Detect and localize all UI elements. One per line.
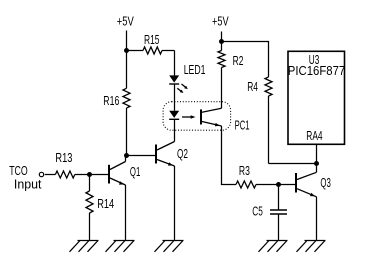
ground below R14 — [70, 241, 99, 252]
svg-text:Q1: Q1 — [130, 165, 140, 179]
resistor R16 — [103, 51, 130, 156]
wire node F to Q3 base — [279, 184, 296, 186]
terminal input open circle — [39, 172, 43, 176]
svg-text:PC1: PC1 — [235, 118, 250, 132]
node B junction R16/Q1 collector/Q2 base — [124, 153, 129, 158]
wire Q3 collector to node E — [316, 164, 318, 173]
resistor R3 — [236, 164, 279, 188]
wire LED1 cathode to PC1 LED anode — [174, 84, 176, 111]
wire R4 to node E — [269, 163, 317, 165]
transistor Q1 — [109, 162, 140, 186]
svg-text:+5V: +5V — [117, 15, 134, 29]
wire Q1 emitter to ground — [125, 185, 127, 241]
wire +5V rail to R4 — [222, 42, 269, 78]
node E junction RA4/R4/Q3 collector — [314, 161, 319, 166]
svg-text:TCO: TCO — [9, 164, 28, 178]
ground below Q2 — [155, 241, 184, 252]
resistor R14 — [86, 175, 114, 241]
svg-text:LED1: LED1 — [184, 63, 206, 77]
svg-text:+5V: +5V — [212, 15, 229, 29]
wire Q3 emitter to ground — [316, 197, 318, 241]
diode PC1 internal LED — [169, 111, 179, 120]
resistor R4 — [247, 77, 272, 164]
node A junction +5V/R15/R16 — [124, 48, 129, 53]
wire Q1 collector to node B — [125, 156, 127, 162]
optocoupler PC1 dashed outline — [163, 102, 231, 131]
node +5V right label — [212, 15, 229, 29]
svg-text:PIC16F877: PIC16F877 — [288, 64, 345, 78]
wire RA4 pin down — [316, 145, 318, 164]
ground below Q1 — [106, 241, 135, 252]
resistor R13 — [45, 151, 90, 178]
wire PC1 emitter down to R3 — [222, 126, 237, 185]
node C junction R13/R14/Q1 base — [87, 172, 92, 177]
svg-text:R15: R15 — [144, 33, 160, 47]
node TCO Input label — [9, 164, 42, 192]
LED LED1 — [169, 63, 205, 93]
transistor Q3 — [296, 172, 331, 197]
resistor R2 — [218, 42, 243, 109]
svg-text:R3: R3 — [239, 164, 250, 178]
ground below Q3 — [297, 241, 326, 252]
svg-text:R13: R13 — [55, 151, 72, 165]
svg-text:C5: C5 — [252, 204, 262, 218]
wire R15 corner down to LED1 — [174, 51, 176, 76]
svg-text:Input: Input — [14, 178, 42, 192]
capacitor C5 — [252, 185, 287, 241]
wire node C to Q1 base — [90, 174, 109, 176]
svg-text:Q2: Q2 — [177, 147, 188, 161]
svg-text:R14: R14 — [97, 197, 114, 211]
ground below C5 — [259, 241, 288, 252]
transistor Q2 — [156, 142, 188, 167]
node F junction R3/C5/Q3 base — [276, 182, 281, 187]
wire node B to Q2 base — [127, 155, 156, 157]
wire PC1 LED cathode to Q2 collector — [174, 119, 176, 141]
IC U3 box — [288, 51, 345, 144]
node D junction +5V/R2/R4 — [219, 39, 224, 44]
svg-text:R2: R2 — [233, 54, 244, 68]
wire Q2 emitter to ground — [174, 166, 176, 241]
wire +5V left vertical — [126, 31, 128, 51]
label PC1 — [235, 118, 250, 132]
resistor R15 — [127, 33, 175, 54]
node +5V left label — [117, 15, 134, 29]
svg-text:R4: R4 — [247, 80, 258, 94]
svg-text:Q3: Q3 — [320, 176, 331, 190]
transistor PC1 phototransistor — [201, 108, 222, 126]
PC1 internal light arrow — [182, 115, 196, 119]
svg-text:RA4: RA4 — [306, 129, 322, 143]
svg-text:R16: R16 — [103, 94, 119, 108]
wire +5V right vertical — [221, 32, 223, 42]
